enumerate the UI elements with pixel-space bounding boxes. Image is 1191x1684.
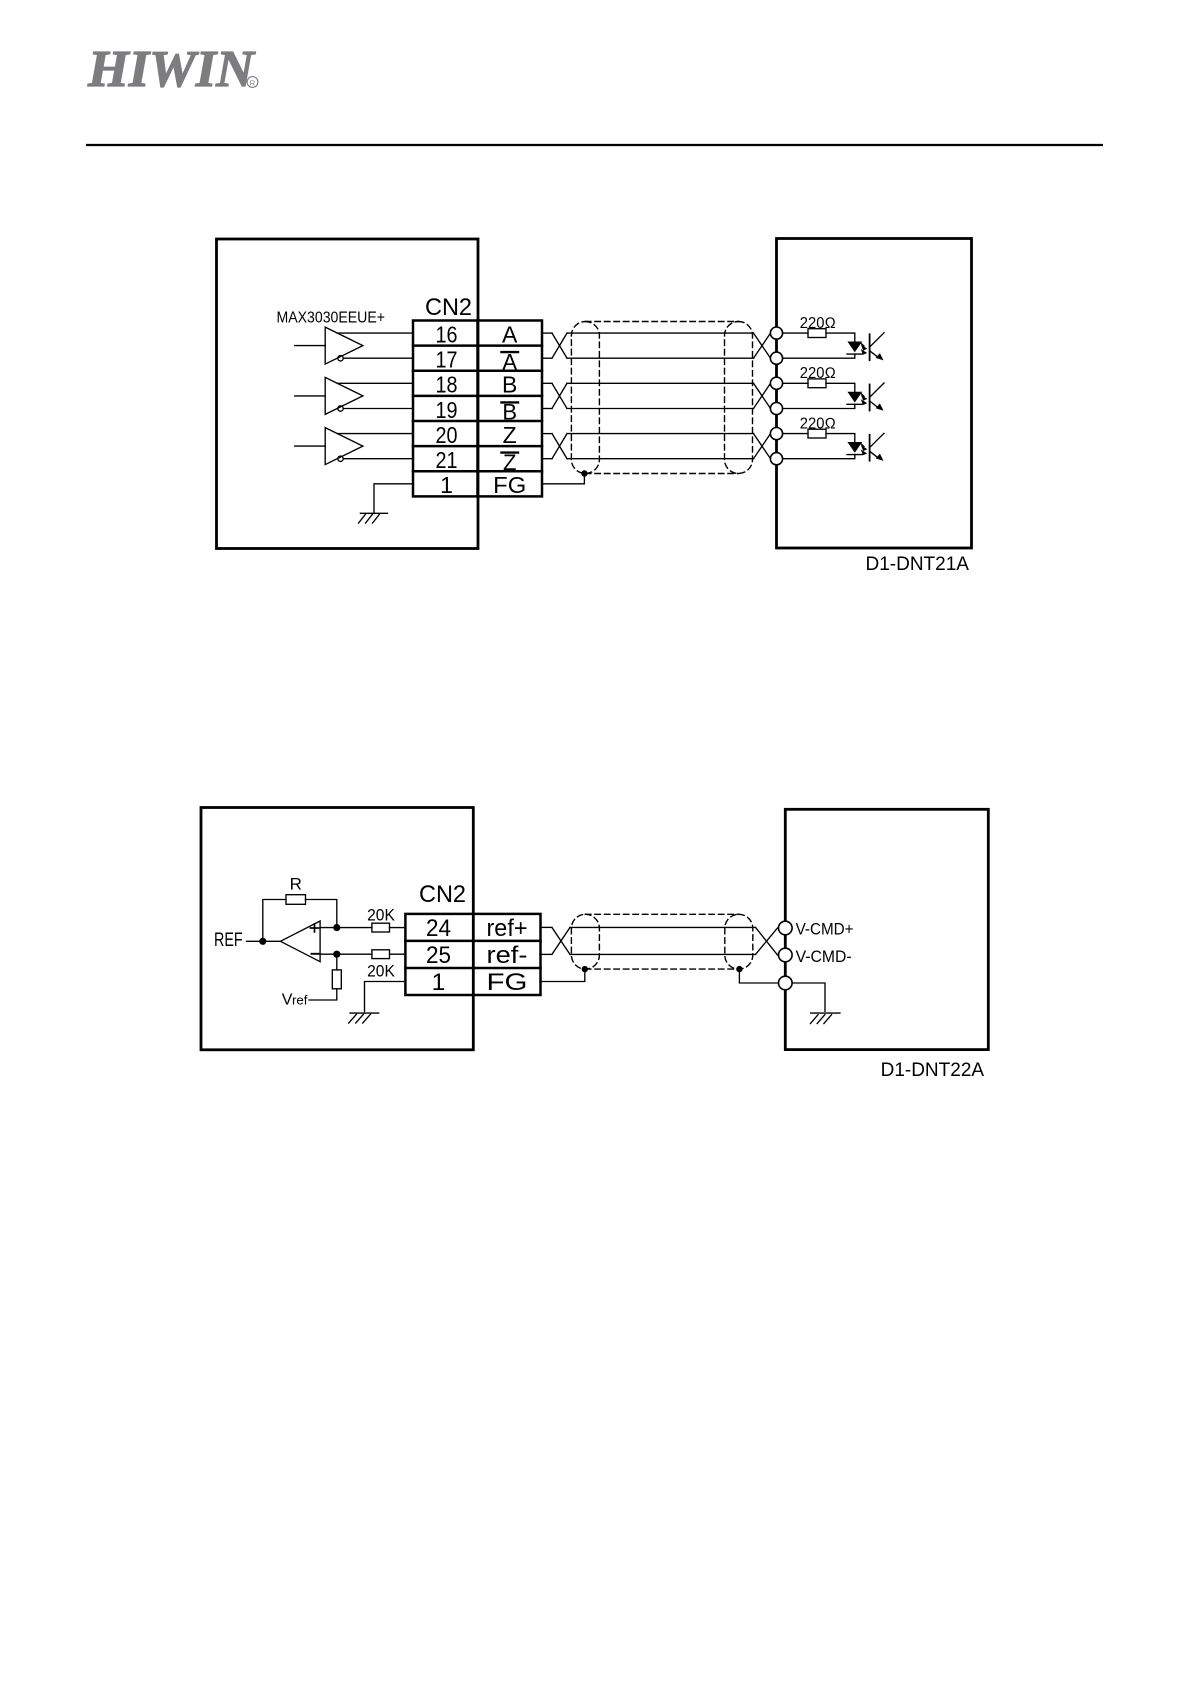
terminal circle pair A [770, 352, 782, 364]
twisted-pair crossover A (right) [754, 333, 771, 358]
ground symbol (right box, bottom schematic) [810, 1013, 840, 1024]
wire: resistor to Vref [309, 989, 337, 1000]
wire: pair A lines through shield [567, 332, 754, 334]
optocoupler phototransistor (pair B) [869, 385, 871, 411]
svg-text:220Ω: 220Ω [800, 365, 836, 382]
wire: pair Z stubs from connector [542, 433, 552, 435]
twisted-pair crossover A (left) [552, 333, 567, 358]
header rule [86, 144, 1103, 146]
wire: op-amp - to 20K [320, 953, 372, 955]
junction: - input node [333, 951, 340, 958]
svg-text:20K: 20K [367, 907, 395, 925]
label Vref [282, 991, 308, 1008]
wire: buffer B inverting output to pin [343, 408, 413, 410]
svg-text:220Ω: 220Ω [800, 415, 836, 432]
svg-text:16: 16 [436, 321, 458, 347]
connector CN2 pin table [413, 321, 542, 497]
wire: ref pair through shield [570, 926, 756, 928]
resistor 20K (upper) [372, 923, 390, 932]
D1-DNT22A drive box (right, bottom schematic) [785, 809, 988, 1049]
wire: buffer A non-inverting output to pin [337, 332, 413, 334]
optocoupler phototransistor (pair A) [869, 334, 871, 360]
wire: - node down to resistor [336, 954, 338, 970]
terminal V-CMD- [779, 948, 793, 962]
svg-text:19: 19 [436, 397, 458, 423]
svg-text:MAX3030EEUE+: MAX3030EEUE+ [277, 310, 386, 327]
wire: LED cathode to lower terminal (pair A) [783, 354, 855, 358]
svg-text:25: 25 [426, 942, 451, 969]
wire: feedback loop [263, 900, 286, 942]
twisted-pair crossover ref (right) [756, 927, 778, 955]
svg-text:24: 24 [426, 915, 451, 942]
svg-text:R: R [250, 79, 256, 88]
wire: terminal to resistor (pair A) [783, 332, 808, 334]
terminal circle pair A [770, 327, 782, 339]
resistor R (feedback) [286, 895, 306, 905]
overbar of inverted signal row 21 [502, 451, 519, 453]
wire: terminal to resistor (pair Z) [783, 433, 808, 435]
wire: pair Z lines through shield [567, 433, 754, 435]
ground symbol (left box, top schematic) [359, 513, 388, 523]
svg-text:18: 18 [436, 372, 458, 398]
optocoupler LED (pair B) [847, 392, 862, 403]
resistor (Vref divider) [332, 970, 341, 989]
resistor 220 ohm (pair Z) [808, 429, 826, 438]
svg-text:ref-: ref- [487, 942, 528, 969]
twisted-pair crossover B (left) [552, 383, 567, 408]
svg-text:Z: Z [503, 422, 517, 448]
svg-text:1: 1 [432, 969, 446, 996]
wire: resistor to LED (pair B) [826, 383, 855, 391]
wire: pair B stubs from connector [542, 382, 552, 384]
twisted-pair crossover Z (left) [552, 434, 567, 459]
svg-text:220Ω: 220Ω [800, 315, 836, 332]
wire: resistor to LED (pair Z) [826, 434, 855, 442]
op-amp U2 (REF input stage) [280, 921, 320, 962]
resistor 220 ohm (pair B) [808, 379, 826, 388]
svg-text:CN2: CN2 [425, 294, 472, 321]
twisted-pair crossover B (right) [754, 383, 771, 408]
cable shield (dashed), top schematic [571, 322, 752, 474]
wire: LED cathode to lower terminal (pair B) [783, 404, 855, 408]
svg-text:V-CMD-: V-CMD- [796, 947, 852, 966]
wire: pair B lines through shield [567, 382, 754, 384]
inversion bubble on buffer B [338, 406, 343, 411]
ground symbol (left box, bottom schematic) [349, 1013, 379, 1023]
terminal FG (right box) [779, 976, 793, 990]
wire: buffer A inverting output to pin [343, 357, 413, 359]
wire: pin 1 FG to ground (left box, bottom) [365, 982, 406, 1012]
svg-text:17: 17 [436, 347, 458, 373]
terminal circle pair Z [770, 453, 782, 465]
junction: shield to FG [581, 470, 587, 476]
svg-text:CN2: CN2 [419, 881, 466, 908]
wire: shield to FG terminal [739, 969, 778, 983]
resistor 220 ohm (pair A) [808, 329, 826, 338]
wire: buffer B non-inverting output to pin [337, 382, 413, 384]
terminal circle pair Z [770, 428, 782, 440]
svg-text:20K: 20K [367, 963, 395, 981]
svg-text:1: 1 [440, 472, 453, 498]
terminal V-CMD+ [779, 921, 793, 935]
svg-text:V-CMD+: V-CMD+ [796, 920, 854, 939]
wire: buffer B input [295, 395, 326, 397]
D1-DNT21A drive box (right, top schematic) [777, 239, 972, 549]
inversion bubble on buffer Z [338, 456, 343, 461]
controller box (left, bottom schematic) [201, 808, 473, 1050]
overbar of inverted signal row 17 [502, 351, 519, 353]
wire: FG terminal to ground (right box) [792, 983, 825, 1011]
svg-text:B: B [502, 372, 517, 398]
svg-text:21: 21 [436, 447, 458, 473]
optocoupler light arrows (pair Z) [861, 444, 864, 447]
wire: buffer Z non-inverting output to pin [337, 433, 413, 435]
svg-text:ref+: ref+ [487, 915, 528, 942]
wire: LED cathode to lower terminal (pair Z) [783, 455, 855, 459]
twisted-pair crossover Z (right) [754, 434, 771, 459]
terminal circle pair B [770, 377, 782, 389]
cable shield (dashed), bottom schematic [571, 914, 752, 969]
wire: buffer Z inverting output to pin [343, 458, 413, 460]
svg-text:R: R [290, 875, 302, 894]
inversion bubble on buffer A [338, 356, 343, 361]
resistor 20K (lower) [372, 950, 390, 959]
optocoupler light arrows (pair A) [861, 343, 864, 346]
line driver buffer B (MAX3030) [295, 377, 413, 414]
junction: + input node [333, 924, 340, 931]
twisted-pair crossover ref (left) [552, 927, 570, 954]
svg-text:FG: FG [487, 969, 528, 996]
line driver buffer A (MAX3030) [295, 327, 413, 364]
svg-text:D1-DNT22A: D1-DNT22A [881, 1060, 985, 1081]
wire: terminal to resistor (pair B) [783, 382, 808, 384]
svg-text:HIWIN: HIWIN [87, 41, 256, 98]
wire: REF input [247, 940, 281, 942]
overbar of inverted signal row 19 [502, 401, 519, 403]
connector CN2 pin table (bottom schematic) [405, 914, 540, 995]
wire: buffer A input [295, 345, 326, 347]
svg-text:20: 20 [436, 422, 458, 448]
wire: pin 1 FG to ground (left box) [374, 484, 413, 513]
svg-text:ref: ref [292, 993, 308, 1007]
svg-text:D1-DNT21A: D1-DNT21A [866, 554, 970, 575]
wire: feedback to non-inverting node [306, 900, 337, 928]
wire: resistor to LED (pair A) [826, 333, 855, 341]
controller box (left, top schematic) [217, 239, 479, 549]
wire: shield to pin 1 FG [542, 474, 584, 484]
svg-text:A: A [502, 321, 518, 347]
wire: 20K to pin 24 [390, 927, 406, 929]
terminal circle pair B [770, 402, 782, 414]
optocoupler LED (pair A) [847, 342, 862, 353]
junction: REF node [259, 938, 266, 945]
svg-text:REF: REF [214, 930, 243, 951]
wire: 20K to pin 25 [390, 953, 406, 955]
svg-text:FG: FG [493, 472, 526, 498]
optocoupler LED (pair Z) [847, 442, 862, 453]
line driver buffer Z (MAX3030) [295, 428, 413, 465]
HIWIN logo [87, 41, 258, 98]
wire: ref pair stubs [541, 926, 552, 928]
wire: op-amp + to 20K [320, 927, 372, 929]
junction: shield to FG terminal (right) [736, 966, 742, 972]
wire: shield to pin 1 FG [541, 969, 585, 981]
optocoupler phototransistor (pair Z) [869, 435, 871, 461]
optocoupler light arrows (pair B) [861, 394, 864, 397]
wire: pair A stubs from connector [542, 332, 552, 334]
junction: shield to FG (left) [582, 966, 588, 972]
wire: buffer Z input [295, 445, 326, 447]
